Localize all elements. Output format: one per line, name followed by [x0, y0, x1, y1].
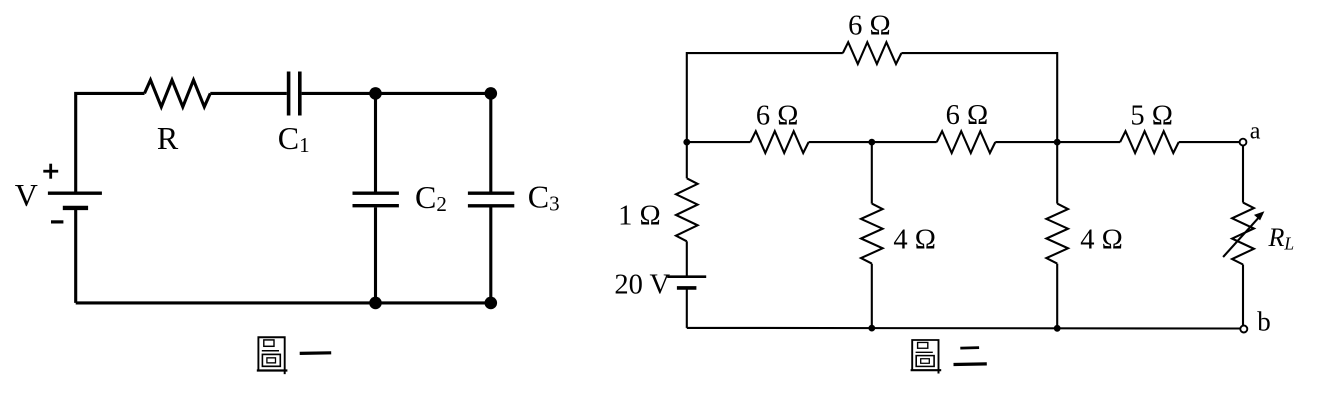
svg-text:20 V: 20 V	[614, 270, 670, 301]
svg-text:5 Ω: 5 Ω	[1130, 100, 1173, 131]
svg-text:6 Ω: 6 Ω	[756, 101, 799, 132]
svg-text:R: R	[157, 120, 179, 156]
svg-text:6 Ω: 6 Ω	[946, 100, 989, 131]
svg-text:4 Ω: 4 Ω	[1080, 225, 1123, 256]
svg-text:b: b	[1257, 306, 1271, 336]
svg-text:a: a	[1250, 118, 1261, 144]
svg-text:4 Ω: 4 Ω	[893, 225, 936, 256]
svg-text:V: V	[15, 177, 38, 213]
svg-text:6 Ω: 6 Ω	[848, 11, 891, 42]
svg-text:1 Ω: 1 Ω	[618, 200, 661, 231]
